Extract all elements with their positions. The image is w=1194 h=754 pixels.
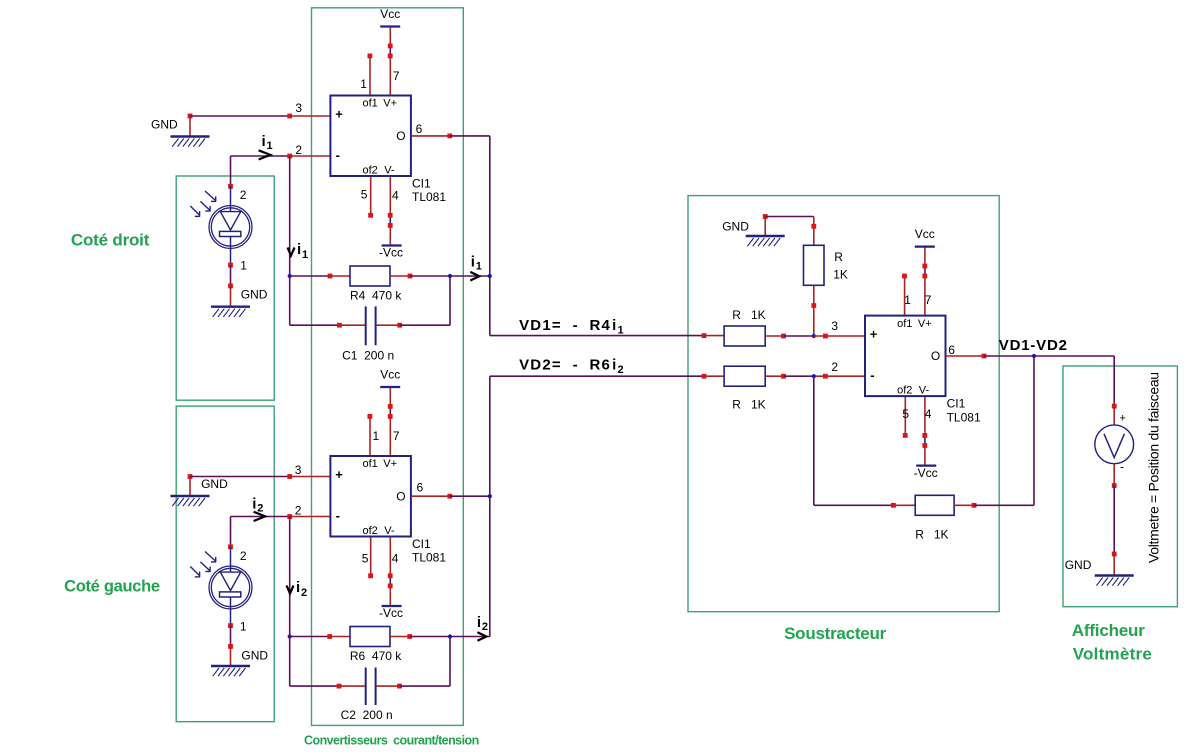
ground GND3 soustracteur — [722, 214, 785, 246]
svg-text:6: 6 — [417, 480, 424, 494]
svg-text:-: - — [1120, 460, 1124, 474]
svg-text:1K: 1K — [833, 268, 848, 282]
svg-text:4: 4 — [925, 407, 932, 421]
node: R4 left junction — [288, 274, 292, 278]
svg-text:VD2= - R6i2: VD2= - R6i2 — [519, 356, 623, 376]
svg-text:R: R — [834, 250, 843, 264]
svg-text:2: 2 — [295, 504, 302, 518]
svg-text:2: 2 — [831, 360, 838, 374]
svg-text:7: 7 — [393, 429, 400, 443]
svg-text:VD1-VD2: VD1-VD2 — [999, 337, 1068, 354]
frame: converters box — [312, 8, 464, 726]
node: U2 output junction — [488, 494, 492, 498]
svg-text:7: 7 — [925, 293, 932, 307]
current label i1 at converter output — [470, 254, 482, 281]
wire: VD1 line to soustracteur — [490, 333, 724, 338]
node: U3 +input junction — [812, 334, 816, 338]
svg-text:R 1K: R 1K — [915, 528, 948, 542]
wire: R4 node line left segment — [290, 274, 350, 279]
wire: photodiode D2 to U2 pin2 (-) — [228, 514, 330, 566]
svg-text:VD1= - R4i1: VD1= - R4i1 — [519, 317, 623, 337]
wire: feedback node from pin2 down to R4 — [289, 156, 291, 276]
current label i2 falling at feedback — [287, 579, 308, 599]
current label i2 at U2 input — [252, 496, 265, 522]
svg-text:GND: GND — [241, 649, 268, 663]
resistor R 1K (VD2 input) — [724, 366, 766, 411]
wire: output into afficheur — [1112, 356, 1117, 425]
capacitor C2 200n — [341, 668, 393, 723]
wire: U2 output pin6 — [411, 376, 490, 636]
frame: photodiode left box — [176, 406, 274, 722]
frame: photodiode right box — [176, 176, 274, 400]
svg-text:i: i — [252, 496, 256, 513]
wire: photodiode D1 to U1 pin2 (-) — [228, 154, 330, 206]
wire: U1 output pin6 — [411, 134, 490, 336]
wire: C2 branch right rise — [376, 637, 450, 689]
svg-text:1: 1 — [240, 259, 247, 273]
svg-text:i: i — [262, 133, 266, 150]
svg-text:2: 2 — [301, 587, 307, 599]
svg-text:Soustracteur: Soustracteur — [784, 624, 886, 643]
wire: VD2 resistor to U3 pin2 — [765, 374, 865, 379]
wire: bias R to +input node — [811, 285, 816, 336]
resistor R 1K (feedback) — [915, 495, 954, 541]
svg-text:i: i — [297, 241, 301, 258]
svg-text:R4 470 k: R4 470 k — [350, 289, 402, 303]
svg-text:3: 3 — [831, 319, 838, 333]
svg-text:5: 5 — [362, 552, 369, 566]
svg-text:1: 1 — [267, 140, 273, 152]
resistor R4 470k — [350, 266, 402, 303]
svg-text:5: 5 — [902, 407, 909, 421]
svg-text:Coté droit: Coté droit — [71, 231, 150, 250]
svg-text:1: 1 — [240, 619, 247, 633]
svg-text:GND: GND — [151, 118, 178, 132]
wire: D2 cathode to ground — [228, 609, 233, 666]
svg-text:C2 200 n: C2 200 n — [341, 708, 393, 722]
U1 pin number labels — [295, 69, 422, 202]
svg-text:7: 7 — [393, 69, 400, 83]
current label i1 falling at feedback — [288, 241, 309, 261]
svg-text:R6 470 k: R6 470 k — [350, 649, 402, 663]
wire: voltmeter to ground — [1112, 464, 1117, 576]
wire: R4 right segment to output node — [390, 274, 490, 279]
svg-text:5: 5 — [361, 188, 368, 202]
svg-text:2: 2 — [240, 549, 247, 563]
photodiode D1 (Cote droit) — [190, 188, 252, 273]
wire: VD1 resistor to U3 pin3 — [765, 334, 865, 339]
wire: C1 branch left drop — [290, 276, 366, 328]
svg-text:6: 6 — [416, 122, 423, 136]
node: U3 -input junction — [812, 374, 816, 378]
op-amp U2 CI1 TL081 (bottom converter) — [330, 368, 446, 621]
svg-text:2: 2 — [482, 621, 488, 633]
node: C1 tee junction — [448, 274, 452, 278]
wire: R6 right segment to output node — [390, 634, 490, 639]
svg-text:GND: GND — [241, 288, 268, 302]
resistor R 1K (bias to ground) — [804, 245, 848, 285]
wire: C2 branch left drop — [290, 637, 366, 689]
svg-text:4: 4 — [392, 188, 399, 202]
photodiode D2 (Cote gauche) — [190, 549, 252, 633]
svg-text:+: + — [1120, 413, 1126, 425]
wire: GND2 to U2 pin3 (+) — [188, 474, 331, 479]
svg-text:i: i — [471, 254, 475, 271]
node: output VD1-VD2 junction — [1032, 354, 1036, 358]
svg-text:1: 1 — [373, 429, 380, 443]
wire: D1 cathode to ground — [228, 249, 233, 307]
svg-text:R 1K: R 1K — [732, 308, 765, 322]
current label i2 at converter output — [477, 614, 488, 641]
svg-text:Coté gauche: Coté gauche — [64, 578, 160, 596]
svg-text:i: i — [296, 579, 300, 596]
op-amp U3 CI1 TL081 (soustracteur) — [865, 227, 981, 480]
ground GND afficheur — [1065, 558, 1134, 586]
wire: R6 node line left segment — [290, 634, 350, 639]
resistor R 1K (VD1 input) — [724, 308, 766, 346]
frame: soustracteur box — [688, 196, 999, 612]
svg-text:i: i — [477, 614, 481, 631]
svg-text:6: 6 — [948, 343, 955, 357]
svg-text:2: 2 — [240, 188, 247, 202]
svg-text:GND: GND — [1065, 558, 1092, 572]
wire: GND3 to bias resistor R — [765, 217, 816, 246]
svg-text:3: 3 — [295, 101, 302, 115]
resistor R6 470k — [350, 627, 402, 664]
svg-text:2: 2 — [295, 143, 302, 157]
node: R6 left junction — [288, 634, 292, 638]
wire: VD2 line to soustracteur — [490, 374, 724, 379]
capacitor C1 200n — [342, 306, 394, 362]
frame: afficheur box — [1063, 366, 1177, 607]
svg-text:3: 3 — [295, 463, 302, 477]
svg-text:GND: GND — [201, 477, 228, 491]
wire: feedback resistor to output — [954, 356, 1034, 508]
current label i1 at U1 input — [259, 133, 273, 160]
wire: feedback node from U2 pin2 down to R6 — [289, 517, 291, 637]
U3 pin number labels — [831, 293, 955, 421]
svg-text:Voltmetre = Position du faisce: Voltmetre = Position du faisceau — [1146, 372, 1162, 563]
op-amp U1 CI1 TL081 (top converter) — [330, 7, 446, 260]
svg-text:Voltmètre: Voltmètre — [1073, 645, 1152, 664]
svg-text:1: 1 — [360, 77, 367, 91]
svg-text:1: 1 — [476, 261, 482, 273]
svg-text:1: 1 — [904, 293, 911, 307]
U2 pin number labels — [295, 429, 424, 566]
ground GND of D1 — [211, 288, 268, 317]
wire: feedback from -input down — [814, 376, 915, 507]
wire: GND1 to U1 pin3 (+) — [188, 114, 331, 119]
svg-text:Afficheur: Afficheur — [1072, 621, 1145, 640]
svg-text:C1 200 n: C1 200 n — [342, 349, 394, 363]
node: C2 tee junction — [448, 634, 452, 638]
node: output/R4 junction — [488, 274, 492, 278]
svg-text:1: 1 — [302, 249, 308, 261]
wire: U3 output pin6 — [946, 354, 1115, 359]
svg-text:R 1K: R 1K — [732, 398, 765, 412]
svg-text:4: 4 — [392, 552, 399, 566]
ground GND2 left — [171, 477, 229, 507]
voltmeter V — [1095, 413, 1134, 474]
ground GND of D2 — [211, 649, 268, 677]
svg-text:Convertisseurs courant/tensio: Convertisseurs courant/tension — [304, 734, 479, 748]
svg-text:GND: GND — [722, 219, 749, 233]
wire: C1 branch right rise — [376, 276, 450, 328]
ground GND1 top-left — [151, 116, 210, 147]
